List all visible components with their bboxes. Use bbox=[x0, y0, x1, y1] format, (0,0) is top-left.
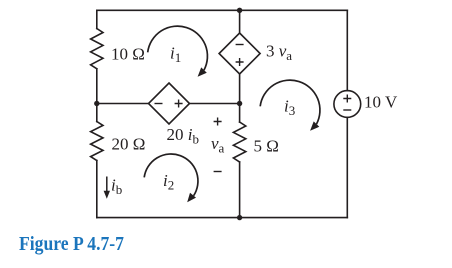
wire horizontal right bbox=[190, 103, 240, 105]
sign minus in 20ib diamond bbox=[155, 103, 163, 105]
node dot left bbox=[94, 101, 99, 106]
svg-text:Figure P 4.7-7: Figure P 4.7-7 bbox=[19, 233, 124, 255]
svg-text:i3: i3 bbox=[284, 97, 295, 119]
wire left middle bbox=[96, 69, 98, 122]
mesh current i1 arc bbox=[148, 26, 208, 70]
arrowhead i3 bbox=[310, 121, 319, 130]
wire right lower bbox=[346, 117, 348, 217]
wire left upper bbox=[96, 10, 98, 28]
sign plus va bbox=[214, 118, 222, 126]
current ib arrow bbox=[104, 177, 110, 199]
mesh current i2 arc bbox=[144, 154, 198, 196]
wire horizontal left bbox=[97, 103, 149, 105]
sign plus in 20ib diamond bbox=[175, 100, 183, 108]
svg-text:10 V: 10 V bbox=[364, 93, 398, 112]
sign plus in 3va diamond bbox=[155, 45, 352, 172]
sign minus va bbox=[214, 171, 222, 173]
sign minus in 3va diamond bbox=[236, 44, 244, 46]
svg-text:20 Ω: 20 Ω bbox=[112, 135, 146, 154]
svg-text:3 va: 3 va bbox=[266, 42, 292, 64]
wire right upper bbox=[346, 10, 348, 90]
resistor 10ohm bbox=[91, 29, 103, 69]
resistor 20ohm bbox=[91, 122, 103, 161]
svg-text:i1: i1 bbox=[170, 44, 181, 66]
svg-text:va: va bbox=[211, 134, 225, 156]
wire middle bottom bbox=[239, 162, 241, 218]
mesh current i3 arc bbox=[260, 80, 320, 124]
svg-text:5 Ω: 5 Ω bbox=[254, 137, 279, 156]
wire bottom bbox=[97, 217, 347, 219]
voltage source 10V circle bbox=[334, 91, 361, 118]
sign plus in 10V source bbox=[343, 95, 351, 103]
resistor 5ohm bbox=[233, 122, 245, 162]
arrowhead i1 bbox=[198, 67, 207, 76]
wire middle mid bbox=[239, 74, 241, 122]
arrowhead i2 bbox=[187, 193, 196, 203]
wire middle top bbox=[239, 10, 241, 33]
sign minus in 10V source bbox=[343, 109, 351, 111]
node dot middle bbox=[237, 101, 242, 106]
node dot bottom bbox=[237, 215, 242, 220]
svg-text:ib: ib bbox=[111, 176, 122, 198]
svg-text:10 Ω: 10 Ω bbox=[111, 45, 145, 64]
wire top bbox=[97, 9, 347, 11]
node dot top bbox=[237, 8, 242, 13]
wire left lower bbox=[96, 161, 98, 218]
dependent source 20ib diamond bbox=[149, 83, 190, 124]
dependent source 3va diamond bbox=[219, 33, 260, 74]
svg-text:i2: i2 bbox=[163, 171, 174, 193]
svg-text:20 ib: 20 ib bbox=[167, 125, 199, 147]
